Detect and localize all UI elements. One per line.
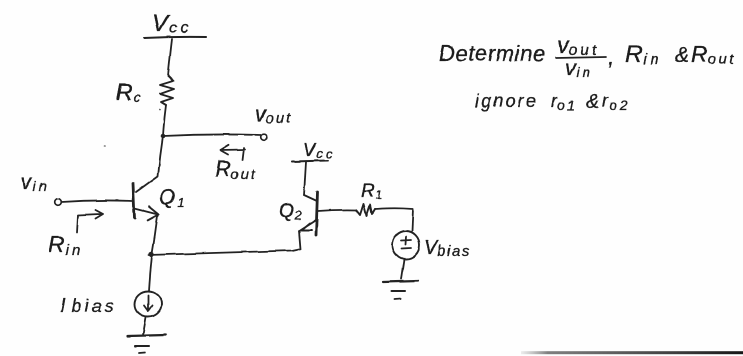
speck below Rc — [159, 109, 161, 111]
transistor Q1 base bar — [133, 184, 135, 218]
node B (emitter junction) — [149, 252, 154, 257]
wire node A to vout terminal — [163, 134, 261, 136]
current source Ibias — [135, 292, 162, 317]
svg-text:Vbias: Vbias — [424, 237, 471, 260]
transistor Q2 base bar — [316, 192, 318, 235]
arrow Rout (pointing left) — [221, 145, 246, 161]
svg-text:Vcc: Vcc — [303, 140, 335, 161]
svg-text:vin: vin — [565, 57, 593, 80]
svg-text:Rc: Rc — [116, 79, 141, 105]
scan artifact: dark strip bottom right — [521, 351, 743, 354]
svg-text:&: & — [586, 91, 599, 113]
wire Vbias to ground — [401, 259, 404, 279]
wire Q2 base to R1 — [318, 210, 356, 211]
ground (below Vbias) — [383, 281, 418, 282]
svg-text:ro1: ro1 — [551, 91, 577, 113]
ground (below Ibias) — [128, 335, 166, 336]
svg-text:Rin: Rin — [48, 231, 83, 259]
wire vin terminal to Q1 base — [62, 200, 133, 202]
svg-text:Rin: Rin — [625, 41, 663, 68]
arrow Rin (pointing right) — [77, 210, 103, 233]
svg-text:Q2: Q2 — [279, 200, 303, 223]
svg-text:Ibias: Ibias — [60, 295, 117, 317]
power Vcc right bar — [292, 161, 328, 162]
wire node B to Q2 emitter — [149, 249, 300, 255]
transistor Q1 emitter with arrow — [135, 207, 159, 221]
speck left of node — [104, 145, 106, 147]
svg-text:,: , — [608, 43, 614, 69]
terminal vin (open circle) — [55, 199, 62, 206]
svg-text:R1: R1 — [361, 181, 382, 202]
terminal vout (open circle) — [261, 134, 268, 141]
svg-text:vout: vout — [255, 103, 292, 127]
wire Vcc bar to Q2 collector — [304, 162, 306, 195]
wire Rc bottom to node A — [163, 105, 166, 136]
node A (collector/output junction) — [161, 134, 166, 139]
wire node A to Q1 collector — [136, 136, 163, 192]
wire Vcc bar to Rc top — [168, 39, 172, 76]
svg-text:Q1: Q1 — [159, 186, 185, 210]
svg-text:ro2: ro2 — [602, 91, 631, 113]
svg-text:vin: vin — [21, 171, 49, 194]
svg-text:&: & — [675, 44, 689, 67]
resistor R1 — [356, 204, 375, 216]
wire node B down to Ibias — [149, 255, 152, 291]
wire Q2 emitter down to rail — [299, 231, 301, 249]
svg-text:Vcc: Vcc — [152, 10, 191, 37]
transistor Q2 emitter with arrow — [299, 220, 316, 231]
power Vcc left bar — [144, 37, 206, 38]
resistor Rc — [160, 76, 174, 105]
svg-text:Rout: Rout — [215, 156, 256, 182]
svg-text:Determine: Determine — [439, 41, 546, 66]
wire R1 to Vbias — [375, 208, 413, 231]
voltage source Vbias — [393, 231, 420, 259]
wire Ibias to ground — [143, 317, 146, 335]
svg-text:ignore: ignore — [475, 91, 538, 111]
wire Q1 emitter down to node B — [152, 216, 158, 255]
svg-text:Rout: Rout — [691, 41, 736, 68]
transistor Q2 collector lead — [304, 195, 317, 201]
svg-text:vout: vout — [557, 32, 600, 59]
